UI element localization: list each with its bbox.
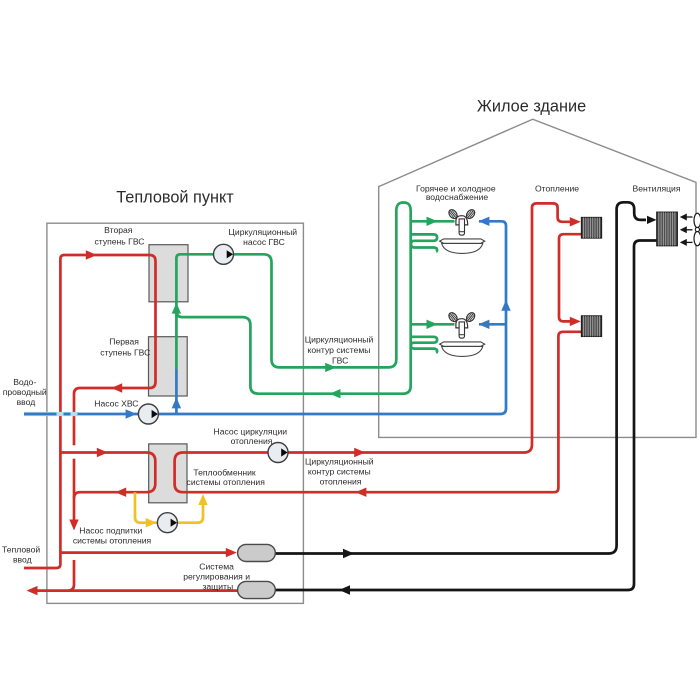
wire: faucet branch floor1 [411, 220, 455, 223]
wire: bottom return out of substation [36, 589, 238, 592]
sink floor 1 [440, 239, 485, 254]
air flow arrow [680, 214, 687, 221]
arrow return to network [27, 586, 38, 595]
svg-text:Тепловой пункт: Тепловой пункт [116, 189, 234, 207]
arrow from heating HX [115, 488, 126, 497]
radiator 1 [582, 218, 602, 239]
arrow vent return [339, 585, 350, 594]
wire: faucet branch floor2 [411, 323, 455, 326]
residential building outline [379, 119, 696, 437]
wire: heat inlet supply riser through DHW stages [24, 255, 156, 568]
arrow to faucet1 [427, 217, 438, 226]
wire: primary return vertical (gap over crossing) [73, 459, 76, 522]
svg-text:Насос подпитки системы отоплен: Насос подпитки системы отопления [73, 525, 152, 545]
air flow arrow [680, 239, 687, 246]
heat exchanger stage 2 DHW [149, 245, 188, 302]
wire: heating secondary loop to building radiators [175, 203, 582, 492]
arrow into radiator1 [570, 217, 581, 226]
arrow circulation return [330, 389, 341, 398]
pump: make-up [157, 513, 177, 533]
arrow up into stage2 [172, 303, 181, 314]
wire: make-up line [135, 492, 203, 523]
fan on wall [694, 213, 700, 246]
wire: primary return bottom [68, 560, 74, 591]
faucet floor 1 [447, 208, 476, 235]
arrow up riser [501, 300, 510, 311]
arrow up into stage1 [172, 397, 181, 408]
wire: radiator1 return to radiator2 supply [559, 234, 582, 321]
arrow vent supply [343, 549, 354, 558]
heat exchanger heating system [149, 444, 187, 503]
towel coil floor1 [411, 234, 437, 251]
heat exchanger stage 1 DHW [149, 337, 188, 396]
pump: cold water [138, 404, 158, 424]
wire: city water inlet light underlay [24, 412, 78, 416]
wire: branch to heating exchanger, U-turn primary [60, 453, 155, 499]
svg-text:Вентиляция: Вентиляция [632, 184, 680, 194]
arrow down primary return [69, 520, 78, 531]
control/protection pill 2 [238, 581, 276, 598]
air flow line [686, 216, 693, 218]
arrow before cold pump [126, 409, 137, 418]
towel coil floor2 [411, 337, 437, 353]
wire: cold water main + building riser [78, 221, 507, 414]
faucet floor 2 [447, 311, 476, 338]
sink floor 2 [440, 342, 485, 357]
arrow cold to faucet2 [478, 320, 489, 329]
wire: city water inlet dashes [24, 413, 71, 416]
svg-text:Горячее и холодное водоснабжен: Горячее и холодное водоснабжение [416, 183, 498, 202]
arrow cold to faucet1 [478, 217, 489, 226]
pump: heating circulation [268, 443, 288, 463]
ventilation unit [657, 212, 678, 246]
svg-text:Насос ХВС: Насос ХВС [94, 399, 138, 409]
air flow line [686, 241, 693, 243]
radiator 2 [582, 316, 602, 337]
arrow heating return from building [355, 488, 366, 497]
arrow into vent unit [647, 216, 657, 224]
arrow into make-up pump [146, 518, 157, 527]
arrow to faucet2 [427, 320, 438, 329]
arrow heating supply to building [354, 448, 365, 457]
air flow line [686, 229, 693, 231]
svg-text:Теплообменник системы отоплени: Теплообменник системы отопления [187, 467, 266, 487]
pump: circulation DHW [214, 244, 234, 264]
arrow into radiator2 [570, 317, 581, 326]
air flow arrow [680, 226, 687, 233]
wire: DHW secondary riser + circulation supply into building [176, 203, 410, 394]
arrow into control pill [226, 548, 237, 557]
svg-text:Отопление: Отопление [535, 183, 579, 193]
wire: ventilation return [275, 241, 657, 591]
wire: cold water branch floor2 [479, 323, 506, 326]
arrow circulation supply [325, 363, 336, 372]
arrow make-up into return [198, 494, 207, 505]
wire: control to ventilation supply [275, 202, 646, 553]
control/protection pill 1 [238, 544, 276, 561]
heat substation box [47, 223, 304, 603]
svg-text:Жилое здание: Жилое здание [477, 98, 586, 116]
arrow stage1 return [111, 383, 122, 392]
wire: line to control system pill [60, 551, 227, 554]
arrow to heating HX [97, 448, 108, 457]
arrow stage2 supply [86, 250, 97, 259]
wire: cold water up into stage1 [175, 369, 178, 414]
